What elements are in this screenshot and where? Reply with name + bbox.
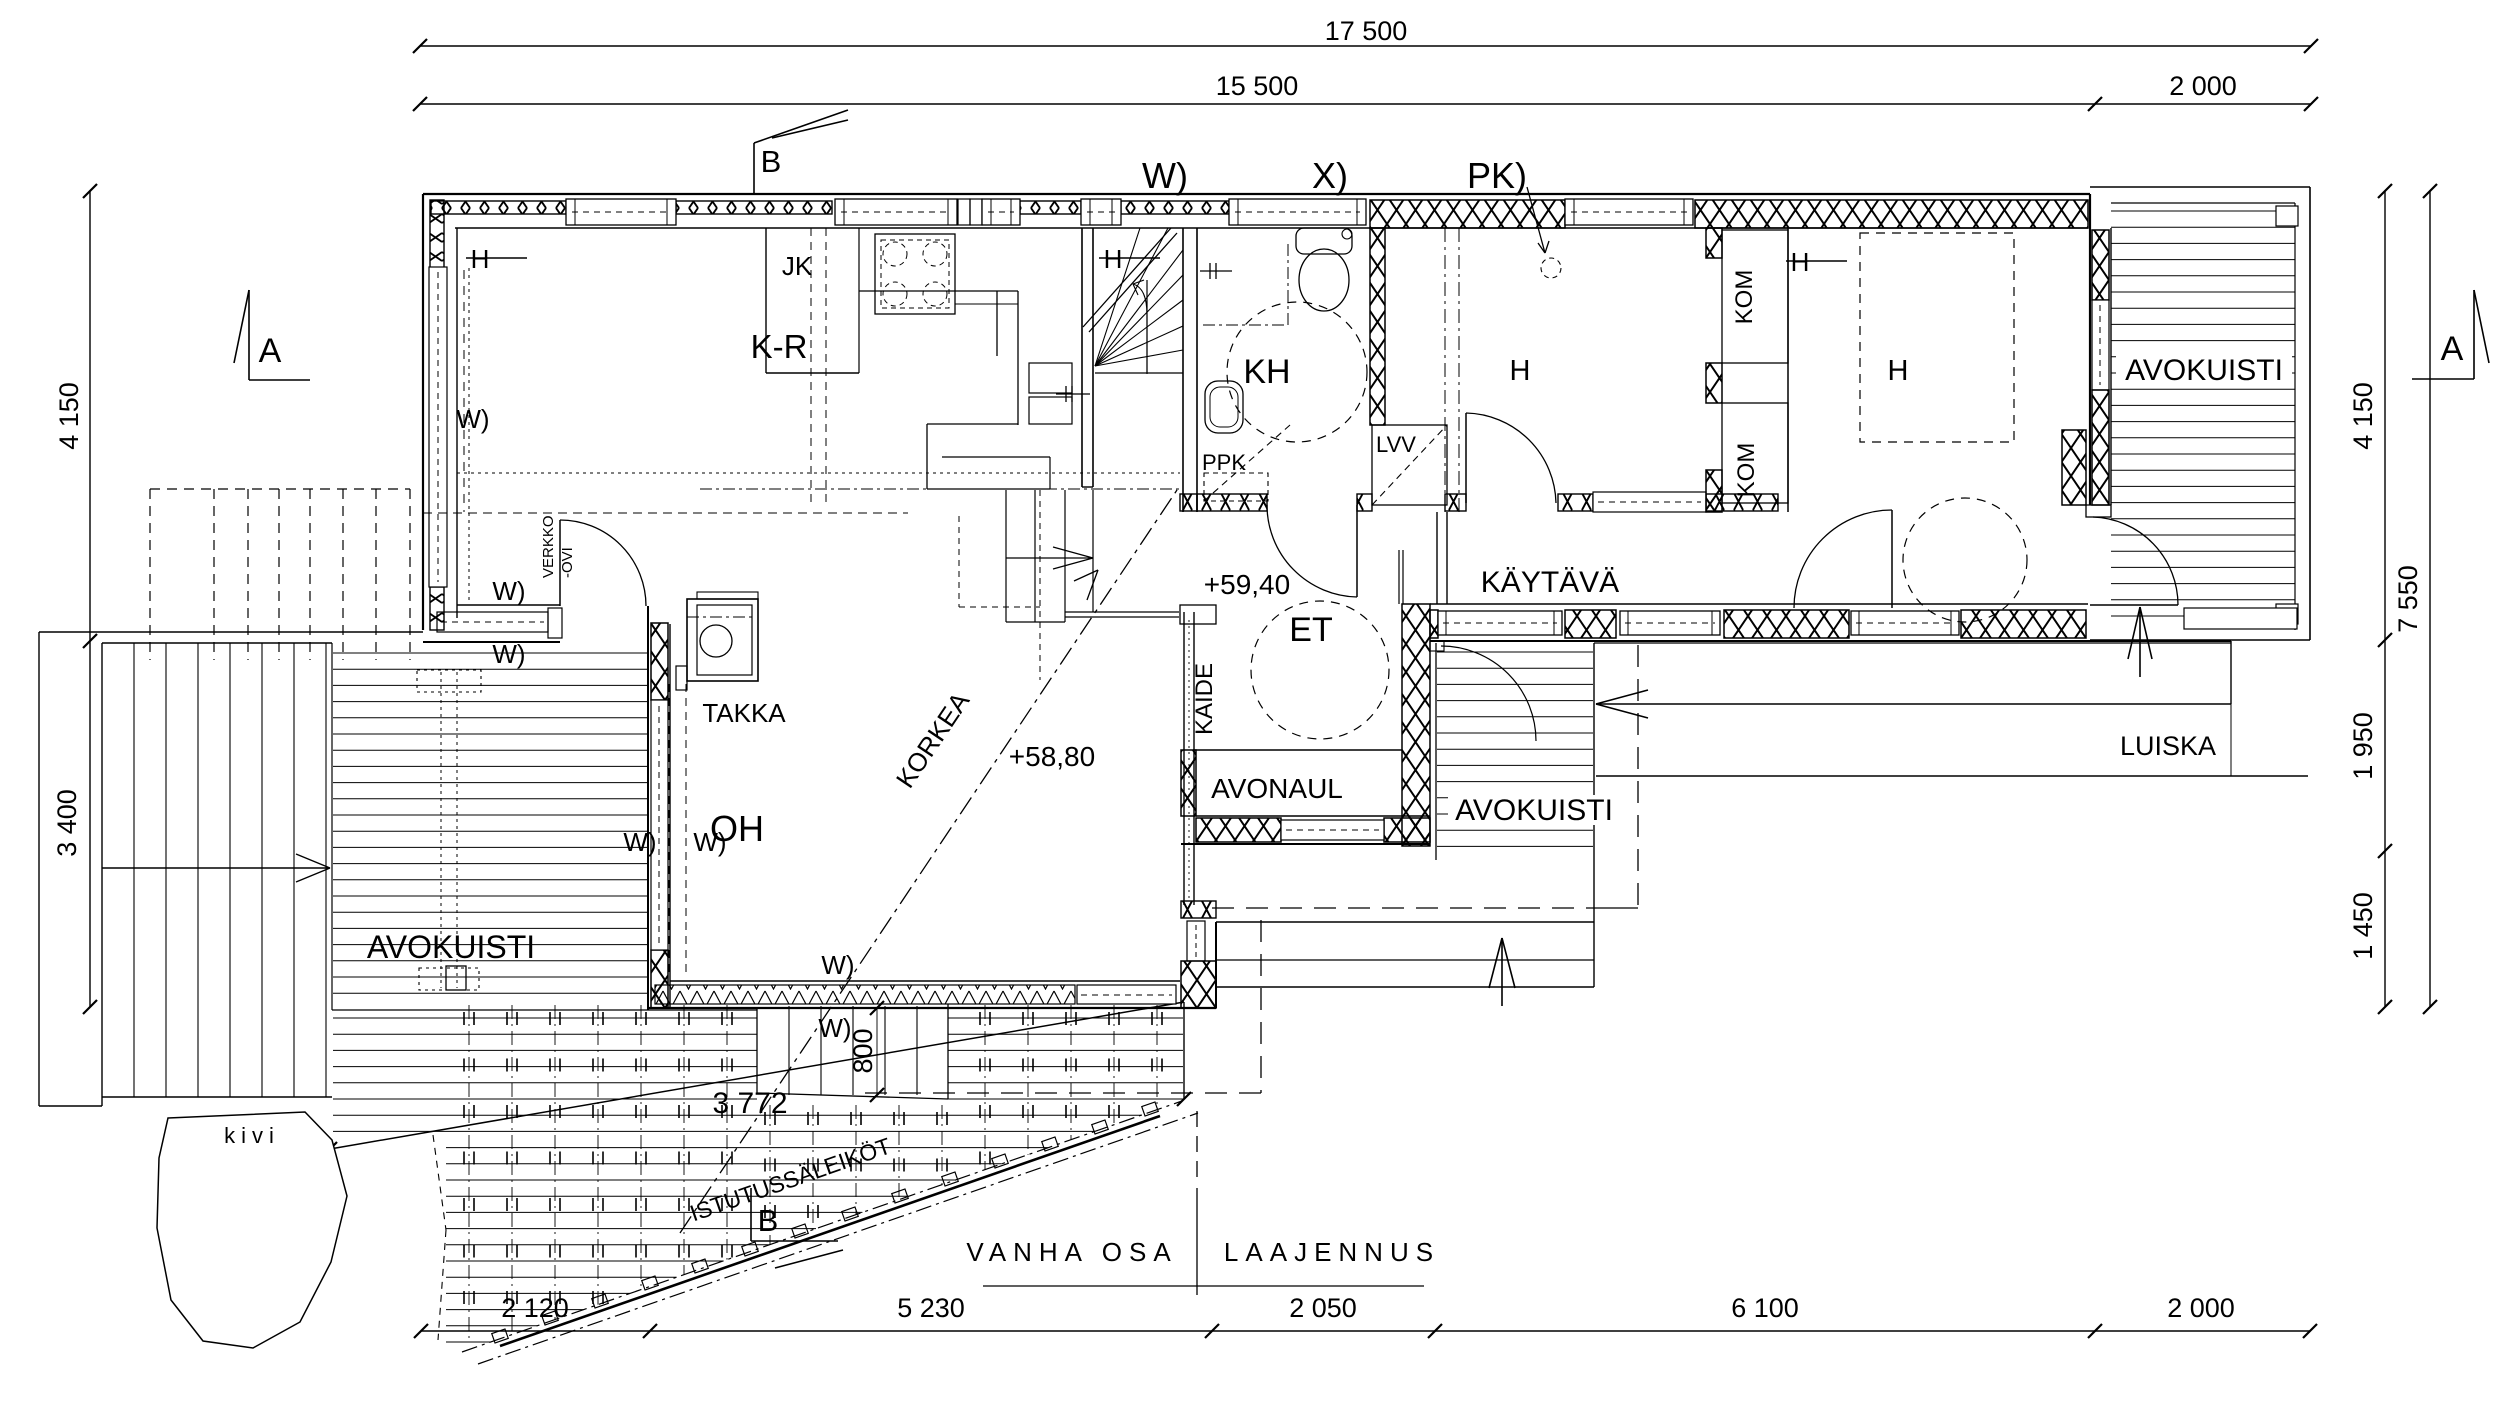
B section dashed line through lower area xyxy=(811,228,826,505)
right porch entry arrow xyxy=(2128,607,2152,677)
svg-text:3 772: 3 772 xyxy=(712,1087,787,1120)
KH shower dash-dot enclosure xyxy=(1203,240,1288,325)
central H room label xyxy=(1510,355,1531,387)
kitchen island sink xyxy=(927,291,1179,680)
KH sink xyxy=(1205,381,1243,433)
svg-text:W): W) xyxy=(492,576,525,606)
radiator symbol right H room xyxy=(1786,247,1847,277)
KORKEA dash-dot diagonal xyxy=(680,487,1179,1233)
dimension 7 550 (right outer) xyxy=(2393,184,2437,1014)
section marker B (top) xyxy=(754,110,848,194)
svg-text:PK): PK) xyxy=(1467,155,1527,196)
svg-text:LVV: LVV xyxy=(1376,432,1416,457)
svg-text:KH: KH xyxy=(1243,353,1290,391)
TAKKA fireplace xyxy=(676,592,786,728)
lower deck decking lines xyxy=(333,1018,1183,1342)
svg-text:W): W) xyxy=(693,827,726,857)
stair winder treads xyxy=(1083,228,1183,373)
top exterior wall outer line xyxy=(423,193,2090,195)
railing dash-dot columns with post pairs xyxy=(464,1005,1162,1340)
level +59,40 xyxy=(1204,569,1290,600)
OH west wall xyxy=(648,606,670,1010)
dimension 4 150 / 3 400 (left) xyxy=(52,184,97,1014)
center porch decking xyxy=(1436,643,1594,987)
OH east wall and railing KAIDE xyxy=(1180,605,1216,1008)
laajennus dashed boundary xyxy=(865,645,1638,1093)
svg-text:KOM: KOM xyxy=(1733,443,1760,498)
K-R room label xyxy=(751,328,808,365)
svg-text:W): W) xyxy=(821,950,854,980)
svg-text:6 100: 6 100 xyxy=(1731,1293,1799,1323)
left porch outer box xyxy=(39,632,423,1106)
stairwell walls xyxy=(1082,228,1197,512)
svg-text:X): X) xyxy=(1312,155,1348,196)
ET turning circle xyxy=(1251,601,1389,739)
KH door arc xyxy=(1267,505,1357,597)
svg-text:AVOKUISTI: AVOKUISTI xyxy=(1455,794,1613,827)
planting strip ISTUTUSSALEIKOT xyxy=(462,1101,1198,1364)
svg-text:ET: ET xyxy=(1289,611,1332,649)
ET label xyxy=(1289,611,1332,649)
right H room label xyxy=(1888,355,1909,387)
KH room label xyxy=(1243,353,1290,391)
kivi stone outline xyxy=(157,1112,446,1348)
svg-text:4 150: 4 150 xyxy=(54,382,84,450)
svg-text:TAKKA: TAKKA xyxy=(702,698,786,728)
right porch frame xyxy=(2090,187,2310,640)
OH room label xyxy=(710,808,764,849)
KAIDE label xyxy=(1191,663,1218,735)
top exterior wall inner line xyxy=(455,227,2088,229)
level +58,80 xyxy=(1009,741,1095,772)
dimension 17 500 (top) xyxy=(413,16,2318,53)
section line X dash-dot xyxy=(1445,228,1459,512)
svg-text:5 230: 5 230 xyxy=(897,1293,965,1323)
center porch entry arrow xyxy=(1489,938,1515,1006)
entrance door arc xyxy=(2090,517,2178,605)
svg-text:2 000: 2 000 xyxy=(2167,1293,2235,1323)
svg-text:LAAJENNUS: LAAJENNUS xyxy=(1224,1237,1440,1267)
svg-text:KAIDE: KAIDE xyxy=(1191,663,1218,735)
screen door VERKKO-OVI xyxy=(540,515,646,606)
central H door arc xyxy=(1466,413,1556,503)
PK leader arrow and circle xyxy=(1527,187,1561,278)
svg-text:1 950: 1 950 xyxy=(2348,712,2378,780)
right H turning circle xyxy=(1903,498,2027,622)
svg-text:KOM: KOM xyxy=(1731,270,1758,325)
corridor south exterior wall xyxy=(1430,604,2231,641)
svg-text:15 500: 15 500 xyxy=(1216,71,1299,101)
left porch decking xyxy=(332,643,647,1010)
svg-text:+59,40: +59,40 xyxy=(1204,569,1290,600)
svg-text:W): W) xyxy=(623,827,656,857)
K-R south wall with window xyxy=(423,605,562,642)
svg-text:W): W) xyxy=(492,639,525,669)
section marker A (left) xyxy=(234,290,310,380)
left porch label AVOKUISTI xyxy=(367,929,535,965)
svg-text:PPK: PPK xyxy=(1202,450,1246,475)
upper deck bottom edge xyxy=(332,1009,757,1011)
svg-text:VANHA OSA: VANHA OSA xyxy=(966,1237,1177,1267)
svg-text:H: H xyxy=(1888,355,1909,387)
KH/corridor wall band xyxy=(1180,492,1778,604)
KH toilet xyxy=(1296,228,1352,311)
section marker B (bottom) xyxy=(751,1188,843,1268)
top labels W) X) PK) xyxy=(1142,155,1527,196)
section marker A (right) xyxy=(2412,290,2489,379)
svg-text:KÄYTÄVÄ: KÄYTÄVÄ xyxy=(1481,566,1619,599)
svg-text:AVOKUISTI: AVOKUISTI xyxy=(367,929,535,965)
stair walk-line arrow xyxy=(1133,280,1147,374)
dashed old porch footprint xyxy=(150,489,410,660)
OH south wall with chevron hatch and window xyxy=(648,981,1216,1008)
svg-text:+58,80: +58,80 xyxy=(1009,741,1095,772)
svg-text:B: B xyxy=(761,144,782,179)
dimension 15 500 / 2 000 (top second line) xyxy=(413,71,2318,111)
dimension bottom row 2120/5230/2050/6100/2000 xyxy=(414,1293,2317,1338)
right exterior wall with entrance door xyxy=(2086,194,2111,517)
center porch lower landing xyxy=(1216,922,1594,987)
radiator symbol K-R xyxy=(466,244,527,274)
svg-text:800: 800 xyxy=(848,1028,878,1073)
svg-text:H: H xyxy=(1791,247,1810,277)
svg-text:JK: JK xyxy=(782,251,813,281)
kitchen fridge JK xyxy=(766,228,859,373)
svg-text:K-R: K-R xyxy=(751,328,808,365)
small deck steps below OH with 800 dim xyxy=(757,1001,948,1102)
dimension 4 150 / 1 950 / 1 450 (right inner) xyxy=(2348,184,2392,1014)
deck edge diagonal xyxy=(330,1002,1184,1149)
svg-text:kivi: kivi xyxy=(224,1123,280,1148)
svg-text:LUISKA: LUISKA xyxy=(2120,731,2216,761)
svg-text:VERKKO: VERKKO xyxy=(540,515,557,578)
center porch label xyxy=(1448,794,1620,827)
KH faucet symbol xyxy=(1200,263,1232,279)
KH turning circle xyxy=(1227,302,1367,442)
LUISKA ramp xyxy=(1594,641,2308,776)
top wall windows xyxy=(566,199,1693,225)
PPK washer reservation xyxy=(1202,425,1290,501)
svg-text:AVONAUL: AVONAUL xyxy=(1211,773,1343,804)
svg-text:H: H xyxy=(1104,244,1123,274)
svg-text:7 550: 7 550 xyxy=(2393,565,2423,633)
W) window labels xyxy=(456,404,854,1043)
right H door xyxy=(1794,510,1892,608)
svg-text:AVOKUISTI: AVOKUISTI xyxy=(2125,354,2283,387)
svg-text:1 450: 1 450 xyxy=(2348,892,2378,960)
svg-text:2 050: 2 050 xyxy=(1289,1293,1357,1323)
svg-text:2 000: 2 000 xyxy=(2169,71,2237,101)
svg-text:A: A xyxy=(2441,330,2464,368)
right H bed dashed xyxy=(1860,233,2014,442)
svg-text:W): W) xyxy=(456,404,489,434)
dimension 3 772 on deck xyxy=(323,1087,1191,1156)
right porch label xyxy=(2116,348,2292,387)
svg-text:H: H xyxy=(1510,355,1531,387)
LVV water heater xyxy=(1372,425,1447,505)
kitchen counter lines xyxy=(859,291,1018,304)
entrance interior wall chase xyxy=(2062,430,2086,505)
right porch corner details xyxy=(2184,206,2298,629)
right porch decking xyxy=(2111,211,2295,616)
pergola dotted details on left porch xyxy=(417,670,481,990)
top wall hatch segments xyxy=(431,199,2088,228)
KOM partition and closets xyxy=(1706,228,1788,512)
svg-text:3 400: 3 400 xyxy=(52,789,82,857)
left exterior wall xyxy=(423,194,457,630)
radiator symbol stairs xyxy=(1099,244,1160,274)
svg-text:-OVI: -OVI xyxy=(559,547,576,578)
kitchen stove xyxy=(875,234,955,314)
chimney dashed lines xyxy=(669,684,686,976)
svg-text:W): W) xyxy=(1142,155,1188,196)
svg-text:4 150: 4 150 xyxy=(2348,382,2378,450)
corridor label KAYTAVA xyxy=(1481,566,1619,599)
vanha osa / laajennus divider xyxy=(966,1111,1440,1295)
left porch steps (vertical planks) xyxy=(102,643,332,1097)
svg-text:H: H xyxy=(471,244,490,274)
svg-text:17 500: 17 500 xyxy=(1325,16,1408,46)
K-R dotted ceiling line xyxy=(423,268,1180,600)
left porch entry arrow xyxy=(102,854,330,882)
center porch door arc xyxy=(1430,641,1536,741)
svg-text:A: A xyxy=(259,332,282,370)
KH right wall hatch xyxy=(1370,228,1385,425)
svg-text:W): W) xyxy=(818,1013,851,1043)
AVONAUL store room xyxy=(1181,604,1430,846)
